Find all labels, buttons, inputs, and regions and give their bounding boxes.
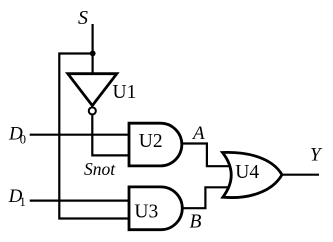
svg-text:U1: U1	[113, 82, 137, 103]
svg-text:B: B	[190, 212, 202, 233]
svg-text:1: 1	[20, 195, 26, 209]
svg-text:U2: U2	[139, 131, 163, 152]
svg-text:S: S	[78, 7, 88, 29]
svg-text:Snot: Snot	[84, 159, 116, 179]
svg-text:U4: U4	[235, 162, 259, 183]
svg-text:0: 0	[20, 132, 26, 146]
svg-text:U3: U3	[134, 202, 158, 223]
svg-text:A: A	[191, 123, 205, 144]
